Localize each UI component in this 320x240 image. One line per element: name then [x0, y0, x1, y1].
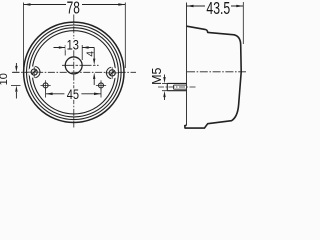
svg-text:10: 10 [0, 73, 10, 85]
label M5 (rotated) [150, 67, 164, 84]
dim 45 arrow left [46, 93, 53, 96]
right screw slot [110, 71, 115, 76]
front view horizontal centerline [13, 71, 137, 73]
stud thread inner [174, 85, 187, 89]
M5 arrow upper (down) [163, 77, 165, 83]
dim 45 extension line right [100, 89, 102, 98]
dim 78 extension line left [23, 3, 25, 69]
svg-text:4: 4 [85, 51, 96, 57]
dim 4 arrow upper (pointing down) [93, 59, 95, 65]
label 78 [67, 0, 80, 18]
label 4 (rotated) [85, 51, 96, 57]
svg-text:78: 78 [67, 0, 80, 18]
left screw hole [31, 69, 37, 75]
svg-text:M5: M5 [150, 67, 164, 84]
side view horizontal centerline [187, 71, 246, 73]
dim 10 lower ref segment [11, 84, 21, 86]
lamp outer ring [24, 22, 124, 122]
dim 43.5 arrow left [187, 5, 194, 8]
right mounting hole of 45 pair [99, 83, 104, 88]
M5 arrow line upper [164, 75, 166, 78]
M5 ext line top [162, 82, 167, 84]
dim 45 extension line left [45, 89, 47, 98]
left mounting hole of 45 pair [43, 83, 48, 88]
dim 4 arrow line lower [93, 79, 95, 85]
dim 10 arrow line lower [15, 92, 17, 99]
dim 78 extension line right [124, 3, 126, 69]
right screw crosshair [106, 67, 120, 79]
center hole (13 dia) [65, 57, 82, 74]
svg-text:43.5: 43.5 [206, 0, 230, 19]
svg-text:45: 45 [67, 85, 79, 102]
stud centerline [158, 86, 196, 88]
lamp ring 4 (inner bezel) [32, 31, 115, 114]
dim 13 extension line right [81, 45, 83, 60]
dim 13 arrow right (pointing left) [82, 46, 88, 48]
dim 10 arrow upper (pointing down) [15, 66, 17, 72]
label 43.5 [206, 0, 230, 19]
dim 10 upper ref segment [12, 71, 20, 73]
right screw boss [106, 67, 118, 79]
label 45 [64, 85, 81, 102]
dim 10 arrow lower (pointing up) [15, 85, 17, 91]
lamp ring 3 [29, 28, 118, 117]
dim 78 arrow left [24, 3, 31, 6]
dim 4 arrow line upper [93, 48, 95, 60]
lamp ring 2 [27, 25, 122, 120]
side view housing outline [185, 26, 241, 128]
M5 arrow lower (up) [163, 91, 165, 97]
dim 43.5 arrow right [236, 5, 243, 8]
dim 13 extension line left [64, 45, 66, 56]
dim 78 arrow right [118, 3, 125, 6]
dim 13 arrow left (pointing right) [59, 46, 65, 48]
svg-text:13: 13 [67, 36, 79, 53]
dim 45 arrow right [94, 93, 101, 96]
label 13 [65, 36, 80, 53]
dim 10 arrow line upper [15, 63, 17, 66]
mounting stud M5 outer [167, 83, 186, 90]
left screw crosshair [28, 67, 42, 79]
label 10 (rotated) [0, 73, 10, 85]
dim 13 line + outside arrows [54, 47, 95, 49]
left screw boss [28, 66, 40, 78]
side view lens face line [186, 3, 188, 126]
dim 45 line [46, 93, 101, 95]
M5 arrow line lower [164, 97, 166, 100]
left screw slot [32, 70, 37, 75]
left mounting hole crosshair [41, 80, 51, 90]
dim 78 line [24, 4, 126, 6]
right screw hole [109, 70, 115, 76]
dim 43.5 line [187, 5, 244, 7]
M5 ext line bottom [162, 90, 167, 92]
dim 4 arrow lower (pointing up) [93, 73, 95, 79]
right mounting hole crosshair [96, 80, 106, 90]
dim 43.5 ext right [242, 2, 244, 44]
front view vertical centerline [73, 15, 75, 128]
center hole horizontal centerline + dim 4 upper reference [62, 64, 99, 66]
